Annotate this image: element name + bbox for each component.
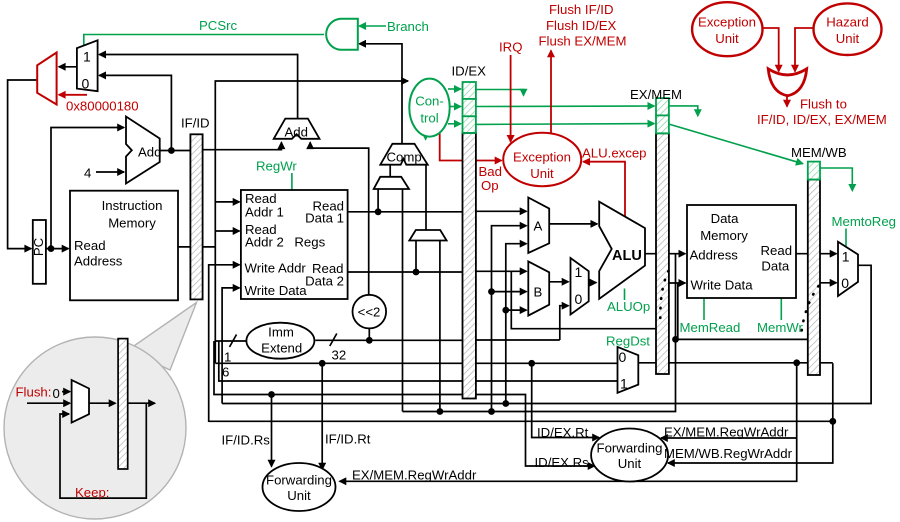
svg-text:MemWr: MemWr [757, 320, 804, 335]
svg-text:4: 4 [84, 166, 91, 181]
svg-text:Unit: Unit [836, 31, 860, 46]
svg-text:Memory: Memory [108, 216, 156, 231]
svg-text:Data: Data [711, 211, 740, 226]
node: EX/MEM.RegWrAddr tap [793, 359, 800, 366]
svg-text:1: 1 [224, 349, 231, 364]
wire: branch mux output to PC select mux [59, 66, 77, 68]
wire: instruction to Read Addr 2 [215, 230, 239, 232]
wire: IRQ into Exception Unit [510, 55, 512, 142]
svg-text:Memory: Memory [700, 228, 748, 243]
wire: 32-bit immediate from Imm Extend to ID/EX [315, 339, 462, 341]
wire: instruction memory output through IF/ID [178, 246, 215, 248]
svg-text:MemRead: MemRead [680, 320, 741, 335]
wire: IF/ID.Rs down to forwarding unit 1 [271, 395, 273, 467]
svg-text:Address: Address [690, 247, 739, 262]
svg-text:A: A [534, 219, 543, 234]
wire: MEM/WB control stub [821, 168, 853, 191]
svg-text:Flush to: Flush to [800, 97, 847, 112]
wire: instruction to Read Addr 1 [215, 201, 239, 203]
wire: bubble mux middle input [27, 402, 70, 404]
svg-text:Flush:: Flush: [16, 385, 52, 400]
svg-text:Add: Add [285, 125, 308, 140]
mux: forwarding mux A [528, 198, 549, 254]
wire: PC+4 after IF/ID to branch adder left input [203, 142, 282, 149]
svg-text:IF/ID.Rs: IF/ID.Rs [222, 433, 271, 448]
wire: write back address bus from MEM/WB [209, 420, 833, 422]
svg-text:1: 1 [83, 49, 91, 65]
svg-text:ALUOp: ALUOp [607, 299, 650, 314]
wire: PCSrc from AND gate to branch mux select [84, 35, 324, 48]
node: ID/EX.Rt tap [528, 360, 535, 367]
wire: RegWr stem to Regs [291, 173, 293, 190]
pipeline register EX/MEM main [656, 133, 669, 374]
wire: WB forward to B mux input 3 [506, 309, 527, 311]
wire: B mux output to ALUSrc mux [549, 281, 568, 283]
wire: store data tap from B input line to EX/MEM [511, 271, 656, 328]
Instruction Memory box [70, 191, 178, 301]
svg-text:<<2: <<2 [358, 305, 381, 320]
svg-text:Bad: Bad [479, 164, 502, 179]
svg-text:EX/MEM: EX/MEM [630, 87, 682, 102]
svg-text:Comp: Comp [387, 150, 422, 165]
oval: Control unit [409, 79, 449, 137]
oval: Forwarding Unit 1 [263, 463, 336, 511]
svg-text:Read: Read [761, 243, 793, 258]
svg-text:EX/MEM.RegWrAddr: EX/MEM.RegWrAddr [352, 468, 477, 483]
wire: flush constant 0 into bubble mux [62, 391, 70, 393]
wire: MemtoReg label stem to mux [845, 229, 847, 247]
svg-text:ID/EX.Rt: ID/EX.Rt [537, 425, 589, 440]
wire: Hazard Unit to OR gate [795, 28, 814, 72]
wire: top Exception Unit to OR gate [762, 28, 778, 72]
wire: EX/MEM.RegWrAddr branch to forwarding unit 2 [661, 437, 797, 439]
wire: A mux output to ALU [549, 223, 597, 225]
wire: branch compare mux 1 left input [377, 189, 379, 212]
wire: ID stage control out of ID/EX segment 1 [476, 90, 524, 96]
wire: write back data vertical to Write Data [222, 288, 239, 404]
wire: WB control diagonal from EX/MEM to MEM/WB [669, 124, 803, 164]
wire: 32 bit-width slash [330, 334, 337, 347]
node: EX forward bus tap at compare mux [437, 408, 444, 415]
svg-text:1: 1 [575, 264, 583, 280]
node: Read Data 1 branch-compare tap [375, 208, 382, 215]
node: IF/ID.Rt tap [319, 360, 326, 367]
wire: Control signal down stub [425, 135, 427, 140]
wire: ID/EX.Rt line down to forwarding unit 2 [532, 363, 599, 437]
wire: Control to ID/EX segment 1 [448, 88, 461, 90]
Data Memory box [687, 205, 796, 298]
svg-text:Write Data: Write Data [245, 283, 308, 298]
wire: ALUOp stem [624, 289, 626, 301]
dotted control path through EX/MEM [660, 271, 668, 326]
svg-text:Add: Add [138, 145, 161, 160]
svg-text:Addr 2: Addr 2 [245, 234, 284, 249]
svg-text:Unit: Unit [287, 488, 311, 503]
svg-text:Instruction: Instruction [102, 198, 163, 213]
wire: Comp output to branch AND gate [359, 44, 402, 144]
wire: PC+4 up to branch mux input 0 [99, 75, 171, 150]
node: PC+4 junction [168, 147, 175, 154]
svg-text:Unit: Unit [530, 166, 554, 181]
adder: PC+4 Add [126, 117, 160, 184]
bubble register bar [118, 339, 128, 469]
wire: branch compare mux 1 output stem to Comp [389, 165, 391, 177]
wire: 16-bit immediate into Imm Extend [215, 340, 248, 342]
svg-text:Data: Data [761, 258, 790, 273]
svg-text:Flush ID/EX: Flush ID/EX [546, 18, 617, 33]
wire: branch compare mux 2 right input from EX forwarding bus [439, 241, 441, 412]
wire: bubble mux output into register [89, 402, 116, 404]
svg-text:ID/EX.Rs: ID/EX.Rs [535, 455, 590, 470]
comparator Comp [380, 144, 427, 165]
wire: RegDst mux output through EX/MEM and MEM/WB [638, 362, 833, 364]
wire: EX forward to B mux input 2 [492, 291, 527, 293]
oval: Exception Unit (pipeline) [503, 133, 581, 186]
svg-text:Unit: Unit [715, 31, 739, 46]
wire: PC to Instruction Memory Read Address [46, 248, 69, 250]
wire: PC+4 adder output to IF/ID [160, 150, 191, 152]
svg-text:Forwarding: Forwarding [597, 441, 663, 456]
svg-text:Hazard: Hazard [826, 15, 869, 30]
wire: Read Data 1 from ID/EX to A mux [476, 210, 527, 212]
wire: MEM stage control to EX/MEM segment 2 [476, 123, 654, 126]
wire: PC select mux output to PC input [8, 80, 38, 249]
svg-text:32: 32 [332, 348, 347, 363]
mux: branch compare forward mux 1 [374, 177, 409, 189]
wire: IF/ID.Rt down to forwarding unit 1 [321, 363, 323, 469]
pipeline register IF/ID [190, 134, 202, 299]
wire: branch adder output to branch mux input 1 [99, 55, 297, 121]
svg-text:Unit: Unit [618, 456, 642, 471]
wire: shifted immediate to branch adder right input [310, 142, 369, 295]
svg-text:MemtoReg: MemtoReg [832, 214, 897, 229]
svg-text:IF/ID, ID/EX, EX/MEM: IF/ID, ID/EX, EX/MEM [757, 112, 887, 127]
wire: EX forward tap up to A mux input 2 [492, 226, 527, 412]
oval: Hazard Unit [814, 3, 882, 55]
svg-text:Read: Read [74, 238, 106, 253]
Registers box [241, 190, 348, 299]
svg-text:Addr 1: Addr 1 [245, 204, 284, 219]
svg-text:PCSrc: PCSrc [199, 18, 238, 33]
node: EX forward B tap [488, 288, 495, 295]
pipeline register ID/EX main [463, 133, 476, 399]
wire: ALU result to EX/MEM and Data Memory Address [645, 253, 685, 255]
svg-text:ID/EX: ID/EX [452, 64, 487, 79]
node: ALU result MEM stage junction [672, 336, 679, 343]
wire: write back data bus from MemtoReg mux [222, 265, 871, 403]
svg-text:0: 0 [53, 386, 60, 401]
wire: immediate up to ALUSrc mux input 0 [560, 306, 569, 340]
svg-text:0x80000180: 0x80000180 [66, 99, 139, 114]
wire: 16 bit-width slash [230, 335, 237, 348]
wire: ALU result from MEM/WB to MemtoReg mux input 0 [820, 282, 837, 284]
svg-text:IRQ: IRQ [499, 40, 522, 55]
svg-text:IF/ID: IF/ID [181, 116, 210, 131]
svg-text:Imm: Imm [268, 325, 294, 340]
wire: EX stage control to EX/MEM segment 1 [476, 105, 654, 108]
callout circle [4, 337, 186, 519]
svg-text:trol: trol [420, 111, 438, 126]
pipeline register MEM/WB main [808, 180, 820, 376]
wire: instruction up to Control [215, 81, 408, 247]
wire: store data from EX/MEM to Data Memory Write Data [669, 282, 686, 284]
wire: Control to ID/EX segment 3 [448, 123, 461, 125]
svg-text:Extend: Extend [261, 341, 302, 356]
svg-text:0: 0 [619, 349, 627, 365]
OR gate: flush combine [768, 69, 807, 96]
PC register box [33, 220, 46, 284]
wire: PC tap up to PC+4 adder top input [51, 128, 124, 249]
wire: Bad Op from Control to Exception Unit [440, 128, 502, 160]
svg-text:1: 1 [842, 248, 850, 264]
adder: branch target Add [274, 119, 320, 139]
svg-text:Keep:: Keep: [75, 485, 109, 500]
svg-text:1: 1 [620, 376, 628, 392]
mux: branch compare forward mux 2 [409, 230, 446, 241]
wire: bubble register output [128, 402, 155, 404]
wire: Control to ID/EX segment 2 [450, 106, 461, 108]
wire: WB forward tap up to A mux input 3 [506, 244, 527, 404]
wire: EX forwarding bus to A and B muxes [403, 254, 676, 412]
wire: branch compare mux 2 left input [415, 241, 417, 273]
wire: MEM/WB.RegWrAddr down to forwarding unit 2 [668, 363, 833, 463]
svg-text:PC: PC [31, 237, 46, 256]
svg-text:MEM/WB: MEM/WB [791, 145, 847, 160]
wire: write back address vertical to Write Addr [209, 265, 240, 422]
svg-text:Data 2: Data 2 [305, 274, 344, 289]
node: WB forward B tap [502, 307, 509, 314]
wire: keep feedback loop [60, 403, 146, 498]
wire: Flush outputs up from Exception Unit [550, 51, 552, 134]
wire: Read Data 2 from Regs to ID/EX [348, 271, 463, 273]
svg-text:EX/MEM.RegWrAddr: EX/MEM.RegWrAddr [664, 425, 789, 440]
svg-text:ALU: ALU [612, 248, 642, 264]
wire: Branch signal into AND gate [359, 25, 386, 27]
svg-text:Flush IF/ID: Flush IF/ID [549, 2, 613, 17]
wire: EX/MEM.RegWrAddr down to forwarding units [340, 363, 797, 481]
wire: MemWr stem [780, 299, 782, 321]
bubble: flush-keep callout group [4, 303, 197, 520]
wire: EX/MEM store data tap [677, 283, 679, 339]
mux: ALUSrc select [571, 258, 589, 315]
svg-text:Data 1: Data 1 [305, 210, 344, 225]
svg-text:B: B [534, 285, 543, 300]
wire: instruction down to immediate extend input [214, 247, 216, 363]
wire: Rd field bus [219, 341, 618, 381]
svg-text:IF/ID.Rt: IF/ID.Rt [325, 432, 371, 447]
svg-text:6: 6 [222, 364, 229, 379]
wire: Rs field bus [214, 341, 595, 466]
node: WB data bus tap [502, 400, 509, 407]
svg-text:Write Addr: Write Addr [245, 261, 307, 276]
node: IF/ID.Rs tap [268, 391, 275, 398]
svg-text:RegDst: RegDst [606, 334, 650, 349]
svg-text:Write Data: Write Data [691, 277, 754, 292]
wire: immediate line through ID/EX [463, 339, 560, 341]
oval: Forwarding Unit 2 [591, 429, 668, 482]
svg-text:Flush EX/MEM: Flush EX/MEM [539, 34, 627, 49]
mux: RegDst select [618, 347, 639, 393]
svg-text:Forwarding: Forwarding [266, 473, 332, 488]
svg-text:0: 0 [841, 275, 849, 291]
svg-text:MEM/WB.RegWrAddr: MEM/WB.RegWrAddr [664, 446, 793, 461]
oval: Exception Unit (top right) [692, 2, 762, 56]
svg-text:Branch: Branch [387, 19, 429, 34]
wire: branch compare mux 1 right input from EX forwarding bus [402, 189, 404, 412]
pipeline register EX/MEM control segments [656, 98, 669, 133]
pipeline register ID/EX control segments [463, 82, 476, 133]
wire: Rt field bus [215, 362, 617, 364]
wire: branch compare mux 2 output stem to Comp [425, 165, 427, 230]
node: MEM/WB.RegWrAddr junction [829, 418, 836, 425]
AND gate: branch AND [326, 19, 358, 50]
ALU [599, 202, 645, 299]
node: PC output junction [48, 245, 55, 252]
wire: EX/MEM ALU result to MEM/WB lower entry [676, 338, 808, 340]
svg-text:0: 0 [575, 291, 583, 307]
wire: shift-left-2 stem to immediate line [368, 328, 370, 340]
wire: MemRead stem [703, 299, 705, 321]
wire: Read Data 1 from Regs to ID/EX [348, 211, 463, 213]
svg-text:0: 0 [82, 76, 90, 92]
node: Read Data 2 branch-compare tap [413, 269, 420, 276]
dotted control path through MEM/WB [802, 286, 819, 332]
wire: EX/MEM segment 1 control stub [669, 106, 698, 116]
svg-text:Exception: Exception [513, 150, 571, 165]
svg-text:RegWr: RegWr [256, 159, 297, 174]
svg-text:Exception: Exception [698, 15, 756, 30]
mux: PC source select (red) [37, 53, 56, 105]
svg-text:Address: Address [74, 254, 123, 269]
wire: ALU.excep from ALU to Exception Unit [583, 162, 625, 217]
callout tail to IF/ID [128, 303, 197, 371]
svg-text:Op: Op [481, 178, 499, 193]
mux: MemtoReg select [838, 242, 858, 296]
mux: branch/PC+4 select [77, 40, 98, 91]
mux: forwarding mux B [528, 261, 549, 315]
circle: shift left 2 [353, 295, 387, 329]
wire: exception handler address 0x80000180 into PC mux [59, 94, 87, 96]
wire: constant 4 into PC+4 adder [96, 171, 124, 173]
svg-text:Con-: Con- [415, 94, 444, 109]
wire: Data Memory Read Data to MEM/WB and MemtoReg mux input 1 [796, 253, 837, 255]
mux: bubble flush mux [72, 380, 89, 423]
pipeline register MEM/WB control segment [808, 162, 820, 180]
wire: ALUSrc mux output to ALU [589, 282, 597, 284]
oval: Imm Extend [246, 323, 314, 359]
wire: Read Data 2 from ID/EX to B mux [476, 270, 527, 272]
svg-text:ALU.excep: ALU.excep [582, 146, 647, 161]
wire: OR gate flush output [786, 97, 788, 107]
svg-text:Regs: Regs [294, 235, 325, 250]
node: immediate shift tap [366, 337, 373, 344]
node: EX forward bus tap at B mux [488, 408, 495, 415]
